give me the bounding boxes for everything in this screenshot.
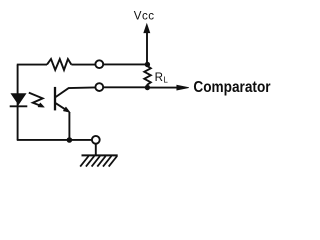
node: emitter junction dot on bottom wire [67,137,73,143]
resistor RL (vertical zigzag) [144,65,151,88]
resistor R1 (series input resistor, zigzag) [47,59,71,70]
terminal: open contact circle (ground side) [92,136,100,144]
transistor Q1 emitter lead with arrow [56,103,68,111]
wire: collector terminal to RL bottom node [103,86,147,88]
svg-text:Vcc: Vcc [134,10,155,23]
svg-text:R: R [155,71,163,84]
svg-text:L: L [163,76,168,85]
wire: output line to comparator [147,87,178,89]
wire: top left horizontal segment [17,64,47,66]
node: junction dot top of RL [145,62,150,67]
ground symbol [95,144,97,155]
terminal: open contact circle (top) [95,60,103,68]
light coupling zigzag arrow [29,93,43,106]
power Vcc arrow [146,32,148,65]
node: junction dot bottom of RL [145,85,150,90]
wire: top terminal to Vcc node [103,63,148,65]
svg-text:Comparator: Comparator [193,79,270,96]
wire: resistor to top terminal [71,64,95,66]
wire: left vertical rail [17,65,19,140]
wire: bottom return rail [17,139,92,141]
terminal: open contact circle (middle, collector output) [95,83,103,91]
arrowhead to comparator [177,85,189,90]
transistor Q1 (phototransistor) base bar [54,87,56,111]
LED (optocoupler emitter diode, cathode down) [11,94,26,105]
transistor Q1 collector lead [56,87,96,97]
